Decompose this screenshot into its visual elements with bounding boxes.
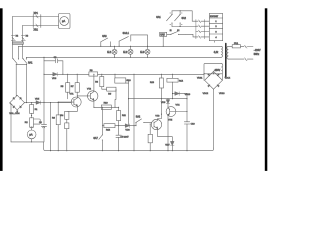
vertical x134 bias to VD8 node — [133, 74, 135, 125]
svg-text:-250V: -250V — [214, 70, 221, 72]
connector XS3 on second vertical wire — [21, 36, 25, 41]
svg-text:EL2: EL2 — [123, 52, 128, 54]
wire bridge bottom corner stub — [16, 110, 18, 112]
page border right edge — [265, 8, 268, 171]
bridge diode marks — [208, 74, 220, 87]
resistor R5 — [66, 83, 70, 93]
resistor R3 — [56, 115, 60, 125]
vertical x102.3 from R10 wire down through R12 to SA7 — [101, 107, 103, 134]
resistor R12 horizontal — [104, 124, 115, 128]
svg-text:µA: µA — [62, 20, 65, 23]
ground rail — [44, 148, 214, 151]
bias wire — [44, 73, 89, 75]
wire vertical from upper meter wire down — [12, 17, 14, 59]
connector XT pin2 — [199, 25, 201, 28]
resistor R8 horizontal — [89, 72, 98, 76]
wire SA5 label box down to top rail — [162, 36, 164, 46]
bottom rail (lamp rail lower) — [26, 56, 221, 58]
connector XS2 on left vertical wire — [11, 36, 15, 41]
svg-text:X3: X3 — [26, 35, 28, 37]
wire aux top loop — [204, 64, 221, 81]
transformer T1 aux winding bumps — [221, 64, 222, 74]
bridge rectifier VD11-VD14 — [205, 71, 223, 89]
switch SA1.2 blade — [23, 59, 27, 64]
resistor R1 — [30, 105, 34, 114]
resistor R2 — [30, 118, 34, 127]
resistor R11 — [117, 111, 121, 121]
resistor R10 horizontal — [101, 105, 111, 109]
wire mains top — [228, 45, 232, 47]
transistor VT1 — [71, 97, 81, 107]
capacitor C2 loop — [44, 61, 63, 75]
svg-text:EL3: EL3 — [140, 52, 145, 54]
svg-text:XP1: XP1 — [34, 13, 39, 15]
top rail (lamp rail upper) — [18, 45, 221, 47]
svg-text:VD14: VD14 — [225, 78, 231, 80]
resistor R4b vertical — [65, 123, 69, 129]
wire right vertical of SA block to connector row1 — [192, 11, 196, 21]
transformer T1 core — [225, 44, 227, 78]
svg-text:X2: X2 — [16, 35, 18, 37]
transformer T1 primary winding bumps — [221, 46, 222, 57]
wire top of SA block — [172, 10, 192, 12]
resistor R13 — [159, 78, 163, 88]
svg-text:VD10: VD10 — [185, 94, 191, 96]
resistor R17 (VT3 base bias) — [148, 134, 152, 143]
wire VT2 emitter node to R10 — [94, 106, 119, 108]
svg-text:XS1: XS1 — [34, 30, 39, 32]
resistor R4 vertical (VT1 emitter chain) — [65, 111, 69, 119]
svg-text:SA5: SA5 — [160, 34, 165, 37]
wire from SA1.2 lower terminal down to R1 node wire — [26, 65, 28, 102]
capacitor C5 — [118, 126, 120, 151]
transistor VT2 — [88, 91, 98, 101]
switch SA2b to VT3 base — [135, 122, 137, 125]
connector X4 bottom — [245, 58, 247, 61]
wire bridge bottom corner down to ground rail — [213, 89, 215, 148]
svg-text:EL1: EL1 — [107, 52, 112, 54]
bypass loop around R2 — [34, 119, 41, 124]
table bottom stub — [214, 41, 216, 43]
switch SA4.1 — [119, 35, 131, 46]
bottom rail left drop to switch row — [25, 56, 27, 59]
resistor R14 horizontal (right of R6) — [115, 78, 126, 83]
connector XT pin4 — [199, 36, 201, 39]
connector X1 pin 1 — [36, 15, 38, 18]
wire top-left horizontal to meter PA1 (lower) — [23, 25, 59, 27]
connector XT pin3 — [199, 30, 201, 33]
diode VD10 — [173, 93, 175, 95]
svg-text:µA: µA — [29, 133, 32, 136]
wire aux bottom joining -250V rail — [204, 73, 221, 75]
connector X1 bracket lines — [33, 15, 41, 28]
meter PA1 — [59, 14, 71, 29]
transformer T1 mains winding bumps — [227, 46, 228, 59]
resistor R16 horizontal — [167, 78, 178, 82]
switch SA2 (upper right block) — [179, 11, 181, 27]
resistor R7 — [75, 83, 79, 93]
vertical feed line x187 — [186, 94, 188, 122]
lamp EL1 — [112, 49, 117, 54]
switch SA1 (upper right block) — [171, 11, 173, 27]
wire linking SA1 pole bottoms — [16, 64, 26, 66]
svg-text:SA4.1: SA4.1 — [123, 32, 130, 35]
node bridge top corner — [213, 73, 214, 74]
capacitor C10 — [184, 122, 189, 124]
wire SA4.1 to lamp EL3 junction — [131, 35, 148, 46]
wire vertical from lower meter wire down — [22, 26, 24, 59]
bottom sub-rail — [11, 141, 44, 143]
svg-text:SA2: SA2 — [182, 17, 187, 20]
contact table — [209, 14, 222, 41]
wire bridge right AC corner up to aux winding — [221, 74, 223, 80]
switch SA3 — [101, 42, 111, 47]
wire -250V distribution — [129, 98, 188, 100]
diode VD7 — [171, 141, 175, 145]
main output wire from bridge right corner — [25, 102, 37, 104]
resistor R6 vertical — [100, 77, 104, 87]
svg-text:SA7: SA7 — [93, 137, 98, 140]
svg-text:SA1: SA1 — [156, 16, 161, 19]
connector XT brackets — [196, 20, 205, 39]
lamp EL2 — [128, 49, 133, 54]
bridge rectifier VD1-VD4 — [10, 95, 25, 110]
svg-text:SA2: SA2 — [136, 116, 141, 119]
page border left edge — [0, 8, 3, 171]
wire bridge left corner down — [10, 103, 11, 142]
fuse FU1 — [232, 45, 240, 48]
switch SA7 — [101, 134, 103, 150]
small component box between verticals — [13, 42, 24, 44]
connector X1 pin 2 — [36, 24, 38, 27]
svg-text:VD11: VD11 — [197, 78, 203, 80]
wire VT1 collector to VT2 base — [77, 95, 87, 97]
wire mains bottom — [228, 58, 244, 60]
wire from SA1.1 lower terminal to bridge VD1-VD4 top — [16, 65, 17, 96]
lamp EL3 — [145, 49, 150, 54]
terminal number marks — [170, 13, 182, 25]
switch SA1.1 row: terminal ticks — [13, 57, 26, 60]
wire bottom of SA block to connector row2 — [172, 26, 196, 28]
switch SA1.1 blade — [13, 59, 17, 64]
svg-text:VD13: VD13 — [219, 93, 225, 95]
wire SA5 to connector row4 — [186, 34, 196, 37]
svg-text:SA1: SA1 — [28, 62, 33, 65]
diode VD8 — [125, 124, 129, 128]
svg-text:4,2k: 4,2k — [214, 51, 219, 54]
vertical x50.5 — [50, 103, 52, 151]
svg-text:~220V: ~220V — [254, 50, 261, 52]
connector X4 top — [245, 45, 247, 48]
transistor VT4 — [166, 107, 176, 117]
terminal cups above PA2 — [30, 127, 45, 128]
top rail left drop to switch row — [17, 46, 19, 58]
svg-text:50Hz: 50Hz — [254, 54, 260, 56]
main left bus vertical — [43, 57, 45, 102]
diode VD6 — [53, 73, 57, 77]
svg-text:КОНТАКТ: КОНТАКТ — [210, 15, 219, 18]
switch SA5 label box — [160, 32, 167, 36]
svg-text:C5 0,047: C5 0,047 — [121, 137, 130, 139]
switch SA5 — [167, 33, 186, 35]
vertical from R9 down — [115, 91, 116, 107]
connector XT pin1 — [199, 20, 201, 23]
wire top-left horizontal to meter PA1 (upper) — [13, 16, 59, 18]
zener VD9 — [166, 100, 170, 104]
diode VD5 — [36, 101, 40, 105]
svg-text:VD12: VD12 — [203, 93, 209, 95]
meter PA2 — [27, 130, 36, 139]
transistor VT3 — [151, 119, 161, 129]
vertical x134 to rail — [133, 126, 135, 151]
capacitor C1 — [43, 102, 45, 142]
resistor R9 horizontal — [107, 87, 116, 91]
svg-text:SA3: SA3 — [102, 35, 107, 38]
